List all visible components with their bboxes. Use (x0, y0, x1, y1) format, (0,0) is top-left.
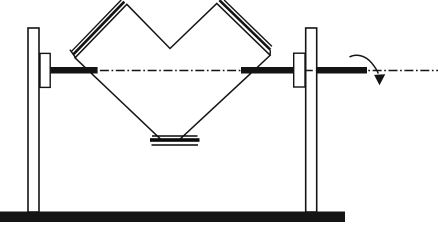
drive shaft left segment (51, 67, 98, 74)
right lid outer line (224, 0, 272, 46)
discharge valve top line (152, 135, 198, 137)
left lid end cap (70, 50, 76, 58)
left lid thick line (73, 2, 124, 55)
discharge valve thick bar (150, 138, 200, 142)
rotation arrow head (374, 74, 385, 85)
drive shaft right inner segment (241, 67, 294, 74)
right lid thick line (219, 0, 270, 50)
axis centerline left segment (98, 70, 242, 72)
axis centerline through right stand (306, 70, 317, 72)
left lid outer line (72, 0, 122, 51)
right lid end cap (269, 50, 271, 55)
drive shaft right outer segment (317, 67, 367, 74)
discharge valve bottom line (152, 144, 199, 146)
base line (0, 212, 345, 223)
right bearing block (294, 53, 305, 87)
V-shell body (75, 3, 270, 139)
left stand (28, 28, 39, 212)
right stand (306, 28, 317, 212)
rotation arrow arc (350, 55, 379, 73)
axis centerline right segment (367, 70, 438, 72)
left bearing block (40, 53, 50, 87)
